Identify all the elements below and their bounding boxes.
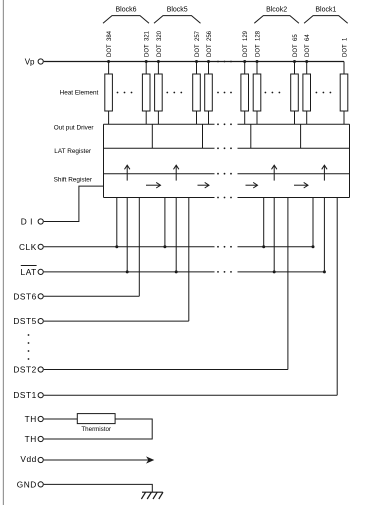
thermistor RT1	[44, 414, 115, 433]
svg-text:DST1: DST1	[13, 390, 36, 400]
arrow shift direction	[198, 182, 210, 188]
svg-text:Vp: Vp	[25, 58, 35, 67]
wire LAT vertical	[175, 198, 177, 272]
svg-text:DOT 129: DOT 129	[243, 30, 249, 57]
output driver block divider	[151, 124, 153, 148]
svg-text:GND: GND	[17, 479, 37, 489]
wire DST2	[44, 369, 288, 371]
brace Blcok2	[254, 7, 299, 24]
terminal TH top	[25, 414, 44, 424]
ellipsis row continuation	[217, 61, 232, 63]
arrow shift to LAT	[125, 165, 130, 180]
svg-text:TH: TH	[25, 414, 37, 424]
chassis ground symbol	[141, 492, 163, 499]
ellipsis row continuation	[217, 173, 232, 175]
svg-text:DOT 384: DOT 384	[107, 30, 113, 57]
wire CLK vertical	[263, 198, 265, 247]
terminal Vdd	[20, 454, 43, 464]
ellipsis more DST lines	[28, 334, 30, 360]
wire DST vertical	[188, 198, 190, 322]
register block box outline	[104, 124, 350, 197]
terminal DST1	[13, 390, 43, 400]
brace Block5	[154, 7, 201, 24]
wire Vp rail	[44, 61, 344, 63]
svg-text:Thermistor: Thermistor	[81, 426, 111, 433]
wire CLK vertical	[312, 198, 314, 247]
wire thermistor loop	[44, 419, 152, 439]
svg-text:DOT 64: DOT 64	[305, 34, 311, 57]
svg-text:Vdd: Vdd	[20, 454, 36, 464]
ellipsis row continuation	[217, 271, 232, 273]
terminal DST6	[13, 291, 43, 301]
svg-text:DOT 128: DOT 128	[256, 30, 262, 57]
wire LAT vertical	[273, 198, 275, 272]
resistor heat element R128	[253, 62, 261, 125]
brace Block1	[304, 7, 348, 24]
ellipsis heat elements	[316, 92, 332, 94]
resistor heat element R65	[291, 62, 299, 125]
output driver block divider	[250, 124, 252, 148]
resistor heat element R64	[303, 62, 311, 125]
wire DST vertical	[336, 198, 338, 396]
ellipsis row continuation	[217, 123, 232, 125]
svg-text:DOT 65: DOT 65	[293, 34, 299, 57]
svg-text:TH: TH	[25, 434, 37, 444]
divider shift register top	[104, 173, 350, 175]
terminal DST5	[13, 316, 43, 326]
wire DST5	[44, 320, 189, 322]
arrow shift to LAT	[272, 165, 277, 180]
resistor heat element R384	[105, 62, 113, 125]
resistor heat element R321	[142, 62, 150, 125]
junction dots CLK	[115, 245, 314, 248]
ellipsis row continuation	[217, 197, 232, 199]
svg-text:DOT 257: DOT 257	[195, 30, 201, 57]
svg-text:DST6: DST6	[13, 291, 36, 301]
arrow shift direction	[294, 182, 308, 188]
svg-text:DOT 256: DOT 256	[207, 30, 213, 57]
brace Block6	[103, 7, 149, 24]
arrow shift direction	[246, 182, 258, 188]
ellipsis row continuation	[217, 92, 232, 94]
wire GND	[44, 484, 153, 492]
wire DST vertical	[138, 198, 140, 297]
terminal GND	[17, 479, 44, 489]
svg-text:Out put Driver: Out put Driver	[54, 125, 95, 132]
junction dots LAT	[126, 270, 326, 273]
ellipsis heat elements	[265, 92, 281, 94]
resistor heat element R256	[205, 62, 213, 125]
svg-text:CLK: CLK	[19, 242, 37, 252]
wire DST1	[44, 394, 337, 396]
resistor heat element R1	[340, 62, 348, 125]
terminal LAT (active low)	[21, 266, 44, 278]
wire D I to shift register	[44, 186, 104, 221]
ellipsis heat elements	[117, 92, 133, 94]
wire Vdd with arrow	[44, 456, 155, 463]
svg-text:DST5: DST5	[13, 316, 36, 326]
resistor heat element R257	[193, 62, 201, 125]
wire LAT vertical	[323, 198, 325, 272]
svg-text:Blcok2: Blcok2	[266, 7, 287, 14]
wire CLK vertical	[164, 198, 166, 247]
output driver block divider	[202, 124, 204, 148]
wire CLK bus	[44, 246, 313, 248]
svg-text:Block6: Block6	[115, 7, 136, 14]
output driver block divider	[300, 124, 302, 148]
svg-text:DOT 320: DOT 320	[157, 30, 163, 57]
terminal DST2	[13, 365, 43, 375]
svg-text:DST2: DST2	[13, 365, 36, 375]
terminal D I	[21, 217, 44, 227]
ellipsis row continuation	[217, 147, 232, 149]
junction dots on Vp rail	[107, 60, 308, 63]
wire CLK vertical	[116, 198, 118, 247]
wire DST6	[44, 295, 140, 297]
svg-text:DOT 321: DOT 321	[145, 30, 151, 57]
resistor heat element R129	[241, 62, 249, 125]
svg-text:D I: D I	[21, 217, 33, 227]
arrow shift to LAT	[174, 165, 179, 180]
svg-text:Heat Element: Heat Element	[60, 90, 99, 97]
arrow shift to LAT	[322, 165, 327, 180]
ellipsis row continuation	[217, 246, 232, 248]
divider LAT register top	[104, 147, 350, 149]
svg-text:LAT: LAT	[21, 267, 37, 277]
arrow shift direction	[146, 182, 161, 188]
svg-text:Block5: Block5	[167, 7, 188, 14]
terminal CLK	[19, 242, 43, 252]
svg-text:LAT Register: LAT Register	[54, 148, 92, 155]
ellipsis heat elements	[166, 92, 182, 94]
wire LAT bus	[44, 271, 325, 273]
wire LAT vertical	[126, 198, 128, 272]
wire DST vertical	[287, 198, 289, 370]
svg-text:Shift Register: Shift Register	[54, 176, 93, 183]
terminal Vp	[25, 58, 44, 67]
svg-text:Block1: Block1	[315, 7, 336, 14]
terminal TH bottom	[25, 434, 44, 444]
resistor heat element R320	[155, 62, 163, 125]
svg-text:DOT 1: DOT 1	[343, 37, 349, 57]
